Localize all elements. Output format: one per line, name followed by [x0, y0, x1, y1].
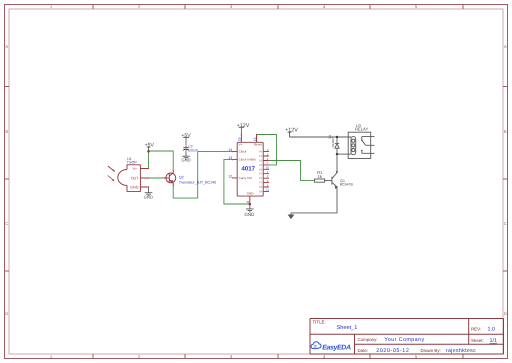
svg-text:Carry Out: Carry Out	[239, 176, 253, 180]
svg-text:V+: V+	[239, 143, 243, 147]
svg-text:8: 8	[246, 201, 250, 203]
svg-text:12: 12	[228, 174, 232, 178]
svg-text:Sheet_1: Sheet_1	[337, 324, 358, 331]
svg-text:A: A	[504, 44, 507, 49]
svg-text:EasyEDA: EasyEDA	[322, 345, 351, 352]
svg-text:RELAY: RELAY	[355, 127, 369, 132]
svg-text:Drawn By:: Drawn By:	[421, 348, 441, 353]
svg-text:16: 16	[238, 137, 242, 141]
svg-text:GND: GND	[247, 192, 255, 196]
svg-text:Date:: Date:	[358, 348, 369, 353]
svg-text:Y3: Y3	[259, 164, 263, 167]
svg-text:13: 13	[228, 156, 232, 160]
svg-text:BC547B: BC547B	[340, 182, 354, 186]
svg-text:TITLE:: TITLE:	[313, 320, 326, 325]
svg-text:GND: GND	[244, 212, 255, 217]
svg-text:Y5: Y5	[259, 173, 263, 176]
svg-text:1.0: 1.0	[488, 327, 496, 333]
svg-text:Clock: Clock	[239, 150, 247, 154]
svg-text:REV:: REV:	[471, 326, 481, 331]
svg-text:Y7: Y7	[259, 182, 263, 185]
svg-text:Y2: Y2	[259, 160, 263, 163]
svg-text:C: C	[504, 221, 507, 226]
svg-text:14: 14	[228, 148, 232, 152]
svg-text:+12V: +12V	[285, 127, 298, 133]
svg-text:Y4: Y4	[259, 168, 263, 171]
svg-text:+5V: +5V	[145, 142, 155, 148]
svg-text:A: A	[5, 44, 8, 49]
svg-text:GND: GND	[144, 195, 153, 200]
svg-text:Clock Inhibit: Clock Inhibit	[239, 158, 256, 162]
svg-text:GND: GND	[130, 186, 139, 190]
svg-text:1N4007: 1N4007	[331, 137, 335, 148]
svg-text:Sheet:: Sheet:	[471, 338, 484, 343]
svg-text:2020-05-12: 2020-05-12	[376, 348, 409, 354]
svg-text:Reset: Reset	[254, 143, 262, 147]
svg-text:GND: GND	[181, 158, 190, 163]
svg-text:OUT: OUT	[131, 176, 140, 180]
svg-text:Y8: Y8	[259, 186, 263, 189]
svg-text:D: D	[5, 311, 8, 316]
svg-text:+5V: +5V	[181, 133, 191, 139]
svg-text:Transistor_BJT_BC140: Transistor_BJT_BC140	[179, 181, 216, 185]
svg-text:+12V: +12V	[237, 123, 250, 129]
svg-text:Y0: Y0	[259, 151, 263, 154]
svg-text:15: 15	[253, 137, 257, 141]
svg-text:4017: 4017	[241, 165, 255, 172]
svg-text:B: B	[5, 129, 8, 134]
svg-text:Your Company: Your Company	[384, 337, 424, 343]
svg-text:Y1: Y1	[259, 155, 263, 158]
svg-text:100uF: 100uF	[188, 148, 199, 152]
svg-text:V+: V+	[132, 167, 138, 171]
svg-text:B: B	[504, 129, 507, 134]
svg-text:Q2: Q2	[179, 175, 184, 179]
svg-text:Y9: Y9	[259, 190, 263, 193]
svg-text:TSOP: TSOP	[127, 161, 138, 165]
svg-text:Company:: Company:	[358, 337, 378, 342]
svg-text:D: D	[504, 311, 507, 316]
svg-text:rajeshktesc: rajeshktesc	[446, 348, 476, 354]
svg-text:C: C	[5, 221, 8, 226]
svg-text:Y6: Y6	[259, 177, 263, 180]
svg-text:1/1: 1/1	[490, 338, 498, 344]
